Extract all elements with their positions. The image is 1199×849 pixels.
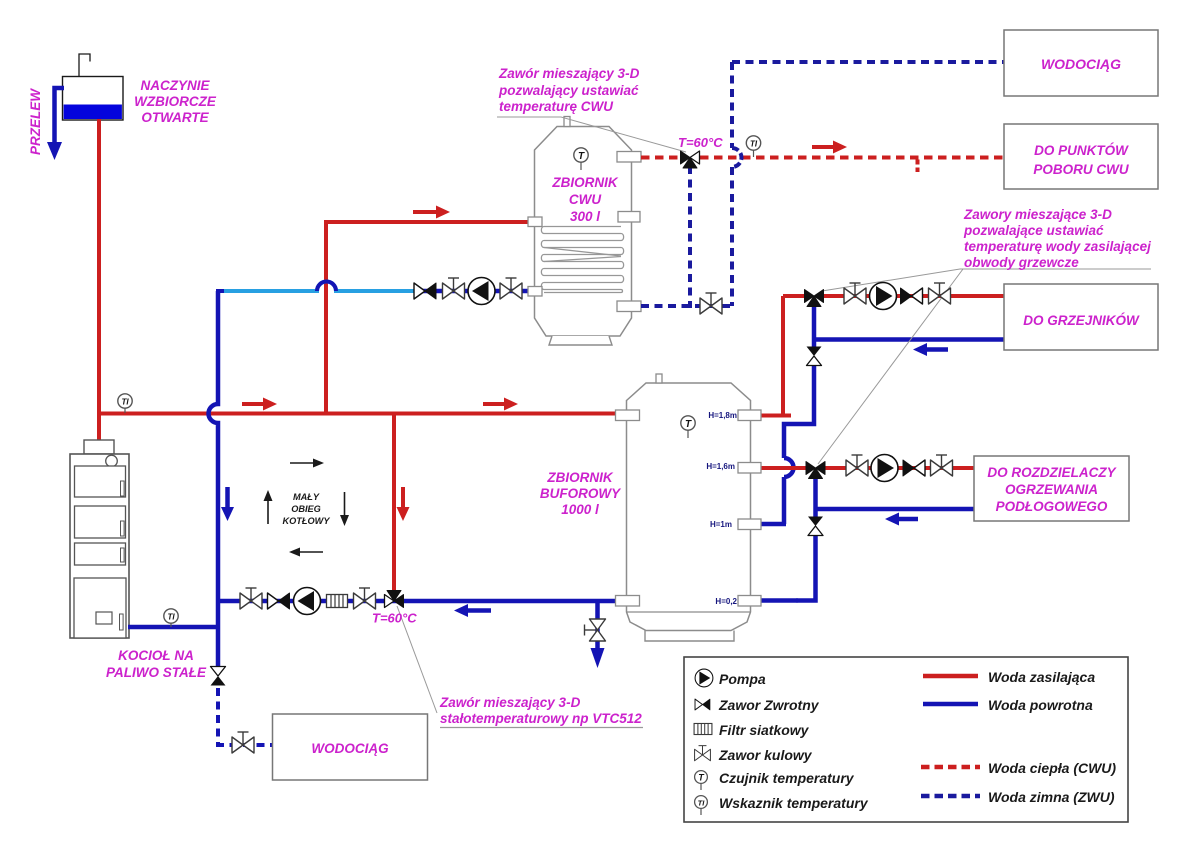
label Zawory mieszajace 3-D heating bbox=[963, 207, 1151, 270]
svg-text:Zawór mieszający 3-D: Zawór mieszający 3-D bbox=[439, 695, 581, 710]
vessel vent pipe bbox=[79, 54, 90, 76]
wire: coil return horizontal (navy part) bbox=[414, 289, 532, 294]
svg-text:TI: TI bbox=[698, 799, 706, 808]
blue flow arrow on floor return bbox=[885, 513, 918, 526]
label ZBIORNIK BUFOROWY 1000l bbox=[540, 470, 622, 517]
svg-text:PODŁOGOWEGO: PODŁOGOWEGO bbox=[996, 499, 1108, 514]
red flow arrow on CWU riser line bbox=[413, 206, 450, 219]
svg-text:KOCIOŁ NA: KOCIOŁ NA bbox=[118, 648, 194, 663]
wire: blue below radiator mixing valve down to check valve bbox=[812, 303, 817, 348]
legend T sensor icon bbox=[695, 771, 708, 790]
blue flow arrow down on main riser bbox=[221, 487, 234, 521]
legend box bbox=[684, 657, 1128, 822]
legend line woda zasilajaca bbox=[923, 674, 978, 679]
CWU left stubs bbox=[528, 217, 542, 227]
svg-text:pozwalający ustawiać: pozwalający ustawiać bbox=[498, 83, 639, 98]
vertical check valve radiator return bbox=[807, 347, 822, 366]
label Zawor mieszajacy 3-D CWU bbox=[498, 66, 640, 114]
wire: red radiator supply line y=296 bbox=[822, 294, 1004, 298]
expansion vessel (naczynie wzbiorcze) bbox=[63, 77, 124, 121]
ball valve radiators (left) bbox=[844, 283, 866, 304]
red flow arrow down to boiler valve bbox=[397, 487, 410, 521]
svg-text:WODOCIĄG: WODOCIĄG bbox=[1041, 56, 1121, 72]
svg-text:DO PUNKTÓW: DO PUNKTÓW bbox=[1034, 143, 1129, 158]
overflow arrowhead bbox=[47, 142, 62, 160]
svg-text:Woda zasilająca: Woda zasilająca bbox=[988, 669, 1095, 685]
wire: blue dashed ZWU riser x=732 with hop bbox=[730, 62, 734, 306]
svg-text:WZBIORCZE: WZBIORCZE bbox=[134, 94, 217, 109]
svg-text:DO ROZDZIELACZY: DO ROZDZIELACZY bbox=[987, 465, 1117, 480]
check valve on cold fill (vertical, flow up) bbox=[211, 667, 226, 686]
CWU right stub middle bbox=[618, 212, 640, 223]
ball valve radiators (right) bbox=[929, 283, 951, 304]
check valve floor heating bbox=[903, 460, 925, 476]
label KOCIOL NA PALIWO STALE bbox=[106, 648, 207, 680]
indicator TI at CWU dashed line bbox=[746, 136, 760, 157]
CWU heating coil bbox=[541, 227, 623, 293]
svg-text:temperaturę wody zasilającej: temperaturę wody zasilającej bbox=[964, 239, 1151, 254]
svg-text:NACZYNIE: NACZYNIE bbox=[140, 78, 210, 93]
box DO ROZDZIELACZY OGRZEWANIA PODLOGOWEGO bbox=[974, 456, 1129, 521]
wire: red floor-heating supply from H=1,6m bbox=[758, 466, 807, 470]
ball valve on blue dashed bottom bbox=[700, 293, 722, 314]
red flow arrow on main (left) bbox=[242, 398, 277, 411]
filter siatkowy on boiler loop bbox=[327, 595, 348, 608]
wire: coil return corner (navy) bbox=[216, 289, 226, 293]
svg-text:KOTŁOWY: KOTŁOWY bbox=[283, 516, 331, 526]
3-way thermostatic mixing valve T=60C at boiler bbox=[385, 591, 404, 608]
svg-text:T: T bbox=[578, 151, 585, 162]
svg-text:MAŁY: MAŁY bbox=[293, 492, 320, 502]
wire: red floor-heating supply line y=468 bbox=[824, 466, 974, 470]
svg-text:Wskaznik temperatury: Wskaznik temperatury bbox=[719, 795, 869, 811]
wire: blue floor return y=509 bbox=[816, 507, 975, 512]
svg-text:Woda zimna (ZWU): Woda zimna (ZWU) bbox=[988, 789, 1115, 805]
ball valve on drain (vertical) bbox=[585, 619, 606, 641]
leader line to boiler thermostatic valve bbox=[397, 606, 437, 713]
sensor T on CWU tank bbox=[574, 148, 588, 170]
wire: cold fill dashed vertical bbox=[216, 688, 220, 745]
legend line woda powrotna bbox=[923, 702, 978, 707]
box WODOCIAG bottom bbox=[273, 714, 428, 780]
svg-text:Czujnik temperatury: Czujnik temperatury bbox=[719, 770, 855, 786]
wire: red feed down to boiler chimney bbox=[97, 414, 101, 442]
svg-text:OBIEG: OBIEG bbox=[291, 504, 321, 514]
box DO PUNKTOW POBORU CWU bbox=[1004, 124, 1158, 189]
svg-text:pozwalające ustawiać: pozwalające ustawiać bbox=[963, 223, 1104, 238]
legend line woda zimna bbox=[921, 794, 980, 799]
CWU right stub bottom bbox=[617, 301, 641, 312]
wire: boiler loop bottom y=601 bbox=[218, 599, 618, 604]
check valve radiators bbox=[901, 288, 923, 304]
wire: blue radiator return y=339.5 bbox=[814, 337, 1004, 342]
svg-text:DO GRZEJNIKÓW: DO GRZEJNIKÓW bbox=[1023, 313, 1140, 328]
CWU right stub top bbox=[617, 152, 641, 163]
svg-text:ZBIORNIK: ZBIORNIK bbox=[546, 470, 613, 485]
wire: blue dashed ZWU top to WODOCIAG bbox=[732, 60, 1004, 64]
check valve on boiler loop bbox=[268, 593, 290, 609]
red flow arrow on main (right) bbox=[483, 398, 518, 411]
wire: red dashed CWU to DO PUNKTOW POBORU bbox=[700, 156, 1004, 160]
svg-text:stałotemperaturowy np VTC512: stałotemperaturowy np VTC512 bbox=[440, 711, 642, 726]
3-way mixing valve radiators bbox=[805, 290, 824, 307]
wire: red main header y=413 bbox=[97, 412, 618, 416]
svg-text:OTWARTE: OTWARTE bbox=[141, 110, 209, 125]
svg-text:Filtr siatkowy: Filtr siatkowy bbox=[719, 722, 810, 738]
wire: red drop to boiler mixing valve x=394 bbox=[392, 414, 396, 595]
svg-text:temperaturę CWU: temperaturę CWU bbox=[499, 99, 614, 114]
wire: red CWU-coil riser x=326 bbox=[326, 222, 531, 414]
leader lines to heating mixing valves bbox=[818, 269, 1151, 464]
red flow arrow on dashed CWU line bbox=[812, 141, 847, 154]
wire: hop repaint navy over red riser bbox=[317, 282, 336, 292]
svg-text:Zawory mieszające 3-D: Zawory mieszające 3-D bbox=[963, 207, 1112, 222]
3-way mixing valve CWU bbox=[681, 151, 700, 168]
svg-text:TI: TI bbox=[167, 613, 175, 622]
buffer stub H=0,2 bbox=[738, 596, 761, 607]
legend TI indicator icon bbox=[695, 796, 708, 815]
junction dot on H=0,2 line bbox=[795, 598, 799, 602]
wire: blue dashed from CWU mixing valve down bbox=[688, 166, 692, 308]
svg-text:Pompa: Pompa bbox=[719, 671, 766, 687]
blue flow arrow on radiator return bbox=[913, 343, 948, 356]
legend ball valve icon bbox=[695, 746, 711, 761]
box DO GRZEJNIKOW bbox=[1004, 284, 1158, 350]
pump on boiler loop bbox=[294, 588, 321, 615]
svg-text:PRZELEW: PRZELEW bbox=[28, 88, 43, 155]
svg-text:OGRZEWANIA: OGRZEWANIA bbox=[1005, 482, 1098, 497]
ball valve on coil return (left) bbox=[443, 278, 465, 299]
box WODOCIAG top right bbox=[1004, 30, 1158, 96]
check valve on coil return bbox=[414, 283, 436, 299]
svg-text:Woda powrotna: Woda powrotna bbox=[988, 697, 1093, 713]
svg-text:H=1m: H=1m bbox=[710, 520, 732, 529]
overflow pipe (przelew) bbox=[55, 88, 65, 144]
buffer stub H=1,8m bbox=[738, 410, 761, 421]
sensor T on buffer tank bbox=[681, 416, 695, 438]
wire: blue floor return descent to H=0,2 bbox=[759, 534, 816, 601]
boiler (kociol na paliwo stale) bbox=[70, 440, 129, 638]
ball valve on cold fill dashed line bbox=[232, 732, 254, 753]
svg-text:T=60°C: T=60°C bbox=[372, 611, 417, 626]
wire: blue dashed bottom horizontal to tank stub bbox=[641, 304, 734, 308]
pump floor heating bbox=[871, 455, 898, 482]
blue flow arrow on boiler loop bbox=[454, 604, 491, 617]
svg-text:Zawor kulowy: Zawor kulowy bbox=[718, 747, 813, 763]
buffer left bottom stub bbox=[616, 596, 640, 607]
drain arrowhead bbox=[591, 648, 605, 668]
svg-text:H=1,6m: H=1,6m bbox=[706, 462, 735, 471]
svg-text:T=60°C: T=60°C bbox=[678, 135, 723, 150]
svg-text:CWU: CWU bbox=[569, 192, 602, 207]
legend filter icon bbox=[694, 723, 712, 734]
wire: red dashed CWU from tank to mixing valve bbox=[641, 156, 683, 160]
wire: cold fill dashed horizontal to wodociag bbox=[216, 743, 273, 747]
red dashed branch tick bbox=[916, 160, 920, 173]
label Zawor mieszajacy 3-D VTC512 bbox=[439, 695, 643, 728]
buffer stub H=1,6m bbox=[738, 463, 761, 474]
ball valve floor heating (left) bbox=[846, 455, 868, 476]
ball valve floor heating (right) bbox=[931, 455, 953, 476]
indicator TI at red main bbox=[118, 394, 132, 413]
wire: blue below floor mixing valve to T and check valve bbox=[813, 475, 818, 518]
wire: blue radiator return descent with jog and hop over red bbox=[784, 364, 814, 524]
wire: red from buffer H=1,8m up to radiator circuit bbox=[758, 296, 806, 417]
svg-text:T: T bbox=[685, 419, 692, 430]
ball valve on boiler loop (right) bbox=[354, 588, 376, 609]
svg-text:POBORU CWU: POBORU CWU bbox=[1033, 162, 1129, 177]
maly obieg kotlowy circulation arrows bbox=[264, 459, 350, 557]
svg-text:obwody grzewcze: obwody grzewcze bbox=[964, 255, 1079, 270]
svg-text:BUFOROWY: BUFOROWY bbox=[540, 486, 622, 501]
svg-text:PALIWO STAŁE: PALIWO STAŁE bbox=[106, 665, 207, 680]
svg-text:TI: TI bbox=[750, 140, 758, 149]
wire: boiler return y=627 bbox=[128, 625, 218, 630]
3-way mixing valve floor heating bbox=[806, 462, 825, 479]
wire: drain branch bbox=[595, 601, 600, 648]
svg-text:WODOCIĄG: WODOCIĄG bbox=[311, 741, 389, 756]
leader line to CWU mixing valve bbox=[497, 117, 686, 152]
svg-text:TI: TI bbox=[121, 398, 129, 407]
legend pump icon bbox=[695, 669, 713, 687]
label ZBIORNIK CWU 300l bbox=[551, 175, 618, 224]
buffer stub H=1m bbox=[738, 519, 761, 530]
svg-text:H=1,8m: H=1,8m bbox=[708, 411, 737, 420]
label MALY OBIEG KOTLOWY bbox=[283, 492, 331, 526]
svg-text:ZBIORNIK: ZBIORNIK bbox=[551, 175, 618, 190]
pump radiators bbox=[870, 283, 897, 310]
label NACZYNIE WZBIORCZE OTWARTE bbox=[134, 78, 217, 125]
buffer level labels bbox=[706, 411, 737, 606]
wire: blue main riser x=218 (with hop over red main) bbox=[209, 291, 219, 668]
indicator TI at boiler return bbox=[164, 609, 178, 627]
wire: red riser from vessel to main bbox=[97, 119, 101, 414]
vertical check valve floor return bbox=[808, 517, 823, 536]
svg-text:300 l: 300 l bbox=[570, 209, 600, 224]
ball valve on boiler loop (left) bbox=[240, 588, 262, 609]
pump on coil return bbox=[468, 278, 495, 305]
legend line woda ciepla bbox=[921, 765, 980, 770]
wire: coil return horizontal (cyan part) bbox=[224, 282, 416, 292]
buffer tank (zbiornik buforowy 1000 l) bbox=[627, 374, 751, 641]
legend check valve icon bbox=[695, 699, 710, 710]
svg-text:Woda ciepła (CWU): Woda ciepła (CWU) bbox=[988, 760, 1116, 776]
svg-text:H=0,2: H=0,2 bbox=[715, 597, 737, 606]
buffer left top stub bbox=[616, 410, 640, 421]
svg-text:1000 l: 1000 l bbox=[561, 502, 599, 517]
svg-text:Zawór mieszający 3-D: Zawór mieszający 3-D bbox=[498, 66, 640, 81]
svg-text:Zawor Zwrotny: Zawor Zwrotny bbox=[718, 697, 820, 713]
wire: blue to H=1m stub bbox=[759, 522, 786, 527]
ball valve on coil return (right) bbox=[500, 278, 522, 299]
CWU tank (zbiornik CWU 300 l) bbox=[535, 117, 632, 346]
